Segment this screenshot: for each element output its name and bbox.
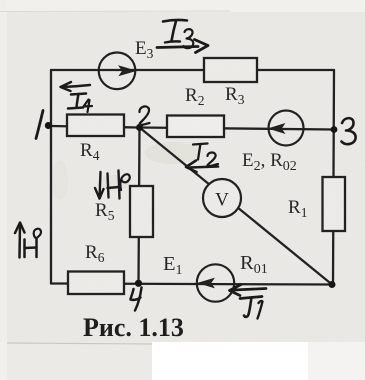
resistor R2: [167, 116, 224, 138]
wire bottom: [51, 284, 333, 285]
handwritten current I6 with arrow: [18, 223, 21, 258]
wire middle branch 1-2: [51, 126, 140, 128]
handwritten current I2 with arrow: [193, 144, 208, 145]
node 1: [45, 122, 52, 129]
wire diagonal 2 to bottom-right: [140, 128, 333, 285]
handwritten node label 1: [36, 111, 43, 139]
resistor R4: [67, 115, 124, 137]
wire top (node1-corner to node3-corner): [51, 69, 334, 71]
voltmeter V: [203, 179, 241, 217]
wire right: [333, 70, 334, 285]
handwritten current I5 with arrow: [100, 172, 101, 199]
handwritten current I4 with arrow: [62, 85, 90, 87]
node 4: [135, 280, 142, 287]
source E1,R01: [197, 264, 234, 301]
handwritten current I1 with arrow: [234, 289, 266, 291]
wire left: [50, 70, 52, 284]
wire middle vertical 2-4: [139, 128, 140, 284]
wire middle branch 2-3: [140, 128, 335, 130]
resistor R5: [130, 186, 153, 237]
handwritten current I3 with arrow: [163, 20, 187, 22]
handwritten node label 4: [131, 289, 141, 300]
handwritten node label 3: [342, 118, 356, 144]
resistor R1: [323, 177, 346, 231]
resistor R6: [68, 272, 124, 295]
source E2,R02: [269, 111, 304, 146]
node 3: [331, 126, 338, 133]
source E3: [99, 53, 136, 90]
handwritten node label 2: [139, 106, 149, 125]
resistor R3: [204, 58, 257, 82]
node 2: [136, 124, 143, 131]
node junction bottom-right: [329, 281, 336, 288]
